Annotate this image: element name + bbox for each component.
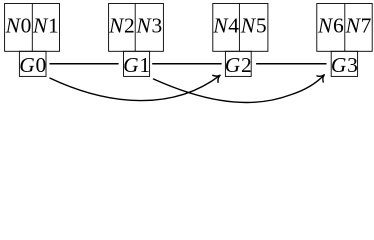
node box G2 <box>225 51 251 76</box>
svg-text:G3: G3 <box>331 53 358 77</box>
svg-text:N7: N7 <box>345 14 372 38</box>
node box N4N5 <box>213 4 268 52</box>
node box N2N3 <box>109 4 164 52</box>
node box N6N7 <box>317 4 372 52</box>
node box G0 <box>19 51 46 76</box>
svg-text:N5: N5 <box>240 14 267 38</box>
svg-text:G1: G1 <box>123 53 150 77</box>
wire G2-G3 <box>256 63 326 65</box>
svg-text:N3: N3 <box>135 14 162 38</box>
svg-text:N6: N6 <box>317 14 344 38</box>
svg-text:G0: G0 <box>19 53 46 77</box>
wire G0-G1 <box>50 63 119 65</box>
svg-text:N4: N4 <box>212 14 239 38</box>
node box G1 <box>124 51 150 76</box>
node box N0N1 <box>5 4 60 52</box>
wire G1-G2 <box>152 63 221 65</box>
svg-text:G2: G2 <box>225 53 252 77</box>
svg-text:N2: N2 <box>108 14 135 38</box>
svg-text:N1: N1 <box>32 14 59 38</box>
arrow G0 to G2 <box>50 72 223 101</box>
arrow G1 to G3 <box>154 72 328 103</box>
svg-text:N0: N0 <box>5 14 32 38</box>
node box G3 <box>331 51 357 76</box>
